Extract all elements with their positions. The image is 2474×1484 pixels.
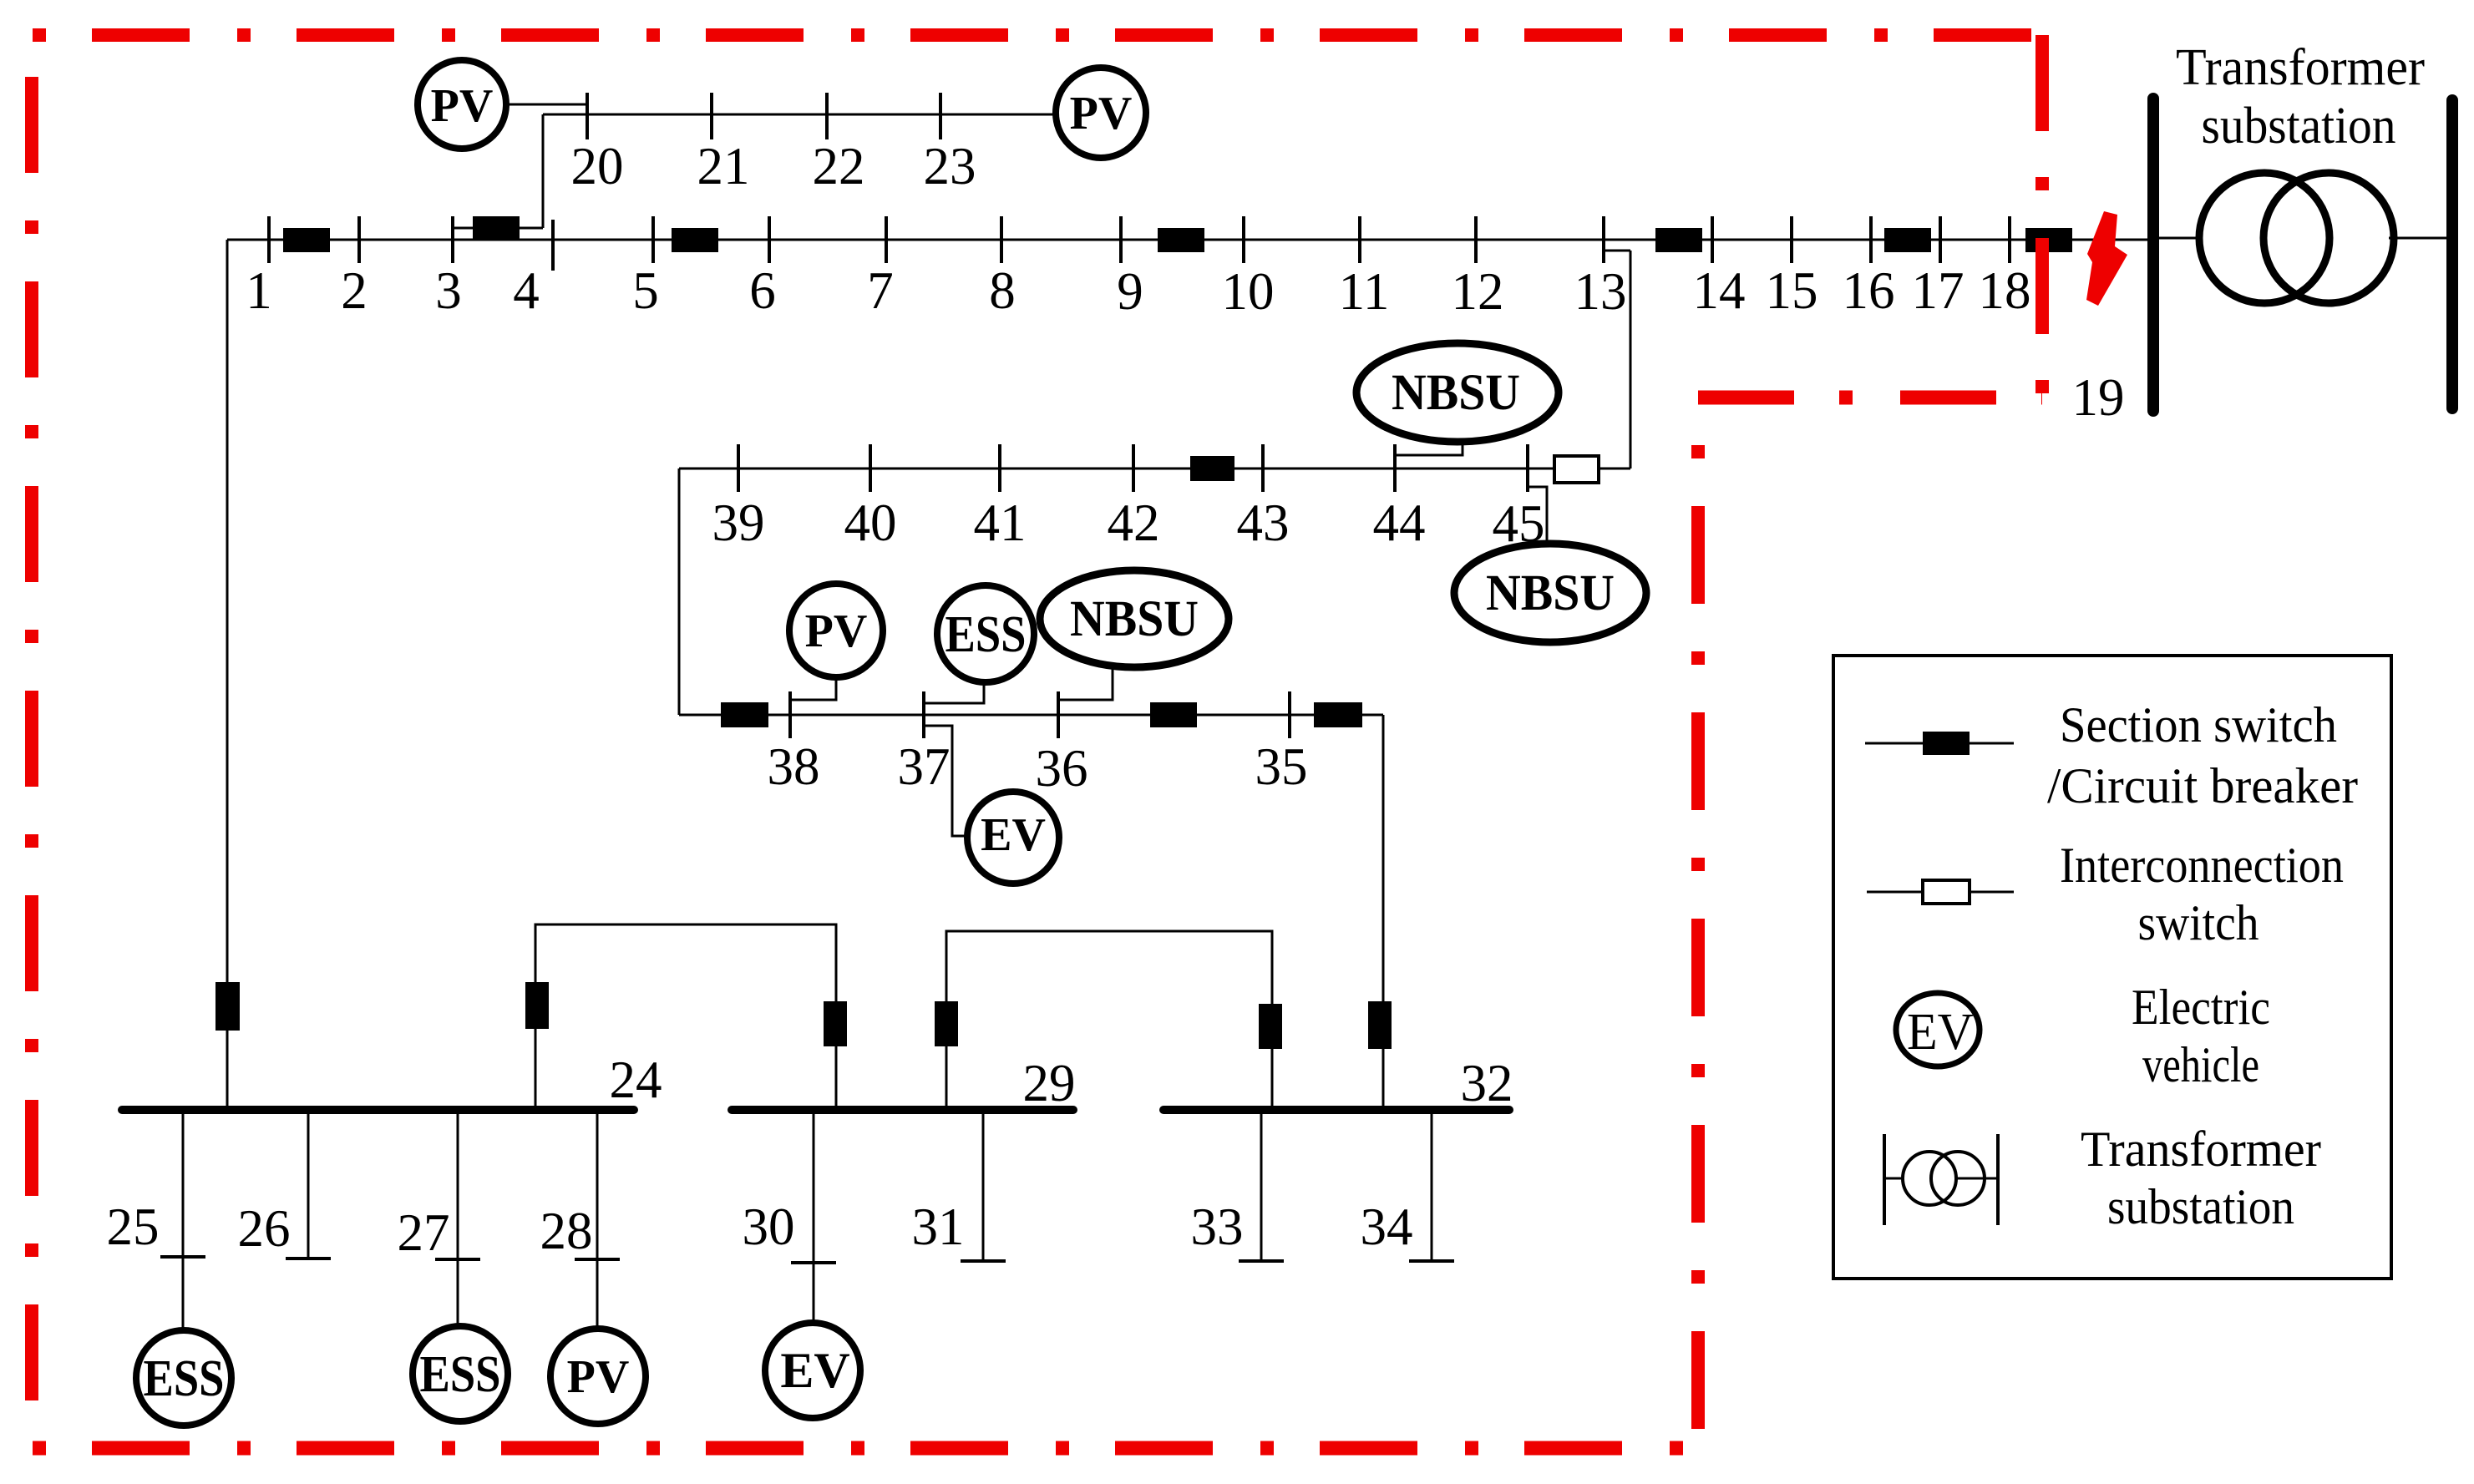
disconnect tick 25: [160, 1255, 205, 1259]
section switch on 32-side of link2: [1259, 1004, 1282, 1049]
ESS unit at node 37: [924, 585, 1034, 703]
section switch on riser bus1-24: [215, 982, 240, 1031]
legend: section switch sample: [1923, 732, 1970, 755]
substation right bus bar: [2446, 100, 2458, 408]
node 6: [768, 216, 771, 263]
svg-text:7: 7: [867, 261, 894, 320]
svg-text:EV: EV: [981, 809, 1046, 861]
red dash-dot microgrid boundary top edge: [33, 28, 2042, 42]
svg-text:4: 4: [513, 261, 540, 320]
EV unit at node 30: [765, 1323, 860, 1418]
legend box: [1833, 656, 2391, 1279]
section switch on node3 tap: [473, 216, 520, 241]
wire PV38 connector: [790, 677, 836, 700]
svg-text:8: 8: [989, 261, 1016, 320]
red boundary bottom edge: [33, 1441, 1698, 1456]
node 10: [1242, 216, 1245, 263]
svg-text:2: 2: [341, 261, 368, 320]
node 14: [1711, 216, 1714, 263]
wire tap vertical riser: [542, 114, 545, 228]
ticks: feeder 20-23 nodes: [587, 93, 940, 139]
PV source at node 20: [418, 60, 506, 149]
svg-text:17: 17: [1912, 261, 1964, 320]
svg-text:ESS: ESS: [420, 1346, 501, 1403]
legend: transformer sample right bar: [1996, 1134, 2000, 1225]
svg-text:36: 36: [1036, 739, 1088, 798]
svg-text:5: 5: [632, 261, 659, 320]
substation bus bar 19 (left): [2147, 99, 2159, 411]
svg-text:44: 44: [1373, 494, 1426, 552]
load 33: [1239, 1110, 1284, 1261]
svg-text:Transformer: Transformer: [2081, 1122, 2321, 1177]
svg-text:13: 13: [1574, 262, 1627, 321]
bus bar 24: [122, 1106, 634, 1114]
svg-text:vehicle: vehicle: [2142, 1037, 2259, 1092]
transformer substation: [2153, 39, 2452, 411]
node 16: [1869, 216, 1873, 263]
svg-text:22: 22: [813, 137, 865, 195]
svg-text:PV: PV: [1070, 88, 1133, 139]
wire NBSU36 connector: [1058, 667, 1113, 700]
node 5: [651, 216, 655, 263]
branch wire from node 13 down to feeder 39-45: [679, 251, 1630, 715]
node 18: [2008, 216, 2011, 263]
legend: transformer sample left bar: [1883, 1134, 1886, 1225]
node 23: [939, 93, 942, 139]
red boundary upper right edge: [2035, 35, 2049, 398]
wire NBSU44 connector: [1395, 442, 1463, 455]
svg-text:24: 24: [610, 1051, 662, 1109]
node 36: [1057, 691, 1060, 738]
node 4: [551, 220, 555, 271]
svg-text:3: 3: [435, 261, 462, 320]
load 28: [550, 1110, 646, 1424]
svg-text:NBSU: NBSU: [1392, 365, 1520, 421]
wire load 25: [182, 1110, 185, 1331]
svg-text:28: 28: [540, 1202, 593, 1260]
load 26: [286, 1110, 331, 1259]
wire node13 stub: [1604, 250, 1630, 252]
section switch left of node 38: [721, 702, 768, 727]
bus bar 32: [1163, 1106, 1509, 1114]
svg-text:35: 35: [1255, 737, 1308, 796]
wire NBSU45 connector: [1528, 487, 1547, 544]
svg-text:20: 20: [571, 137, 624, 195]
svg-text:Interconnection: Interconnection: [2060, 838, 2344, 893]
node 11: [1358, 216, 1361, 263]
legend: transformer sample winding B: [1931, 1152, 1985, 1205]
load 27: [413, 1110, 508, 1421]
section switch between nodes 42-43: [1190, 456, 1234, 481]
section switch on 29-side of link: [824, 1001, 847, 1046]
svg-text:substation: substation: [2107, 1179, 2294, 1234]
section switch between nodes 16-17: [1884, 228, 1931, 252]
ticks: lateral nodes: [790, 691, 1290, 738]
svg-text:12: 12: [1452, 262, 1504, 321]
end bar 31: [961, 1259, 1006, 1263]
node 40: [869, 444, 872, 492]
end bar 26: [286, 1257, 331, 1260]
wire load 30: [813, 1110, 815, 1335]
ticks: feeder 39-45 nodes: [738, 444, 1528, 492]
legend: section switch sample wire: [1865, 742, 2014, 745]
svg-text:26: 26: [238, 1199, 291, 1258]
svg-text:25: 25: [107, 1198, 160, 1256]
load 30: [765, 1110, 860, 1418]
feeder 20-23 wire: [543, 114, 1055, 116]
svg-text:PV: PV: [567, 1351, 630, 1403]
wire bus1 corner down to bus bar 24: [226, 240, 229, 1110]
svg-text:14: 14: [1693, 261, 1746, 320]
node 2: [357, 216, 361, 263]
svg-text:EV: EV: [780, 1343, 849, 1398]
svg-text:34: 34: [1361, 1198, 1413, 1256]
section switch on 29-side of link2: [935, 1001, 958, 1046]
section switch between nodes 5-6: [672, 228, 718, 252]
node 22: [825, 93, 829, 139]
wire load 28: [596, 1110, 599, 1330]
end bar 34: [1409, 1259, 1454, 1263]
bus bar 29: [732, 1106, 1073, 1114]
section switch between nodes 13-14: [1655, 228, 1702, 252]
node 12: [1474, 216, 1478, 263]
main feeder bus number labels: [246, 261, 2124, 427]
wire load 27: [457, 1110, 459, 1327]
svg-text:21: 21: [697, 137, 750, 195]
node 17: [1939, 216, 1942, 263]
svg-text:NBSU: NBSU: [1486, 565, 1615, 621]
svg-text:Transformer: Transformer: [2176, 39, 2425, 96]
ticks: main feeder nodes: [269, 216, 2010, 271]
svg-text:substation: substation: [2202, 98, 2396, 154]
svg-text:switch: switch: [2138, 895, 2259, 950]
wire load 33: [1260, 1110, 1263, 1261]
section switch between nodes 36-35: [1150, 702, 1197, 727]
node 7: [885, 216, 888, 263]
wire PV1 stub to node 20: [508, 104, 587, 106]
node 41: [998, 444, 1001, 492]
wire bar19 to transformer: [2159, 237, 2205, 240]
transformer T1 secondary winding: [2264, 173, 2394, 303]
wire load 26: [307, 1110, 310, 1259]
svg-text:27: 27: [398, 1203, 450, 1262]
node 37: [922, 691, 925, 738]
svg-text:19: 19: [2072, 368, 2125, 427]
main feeder wire (bus1 to substation): [227, 239, 2147, 241]
svg-text:ESS: ESS: [945, 606, 1027, 663]
svg-text:NBSU: NBSU: [1070, 591, 1199, 647]
wire transformer to right bar: [2389, 237, 2446, 240]
wire ESS37 connector: [924, 679, 984, 703]
wire load 31: [982, 1110, 985, 1261]
wire EV37 connector: [924, 726, 968, 836]
load 31: [961, 1110, 1006, 1261]
section switch between nodes 9-10: [1158, 228, 1204, 252]
lateral feeder 35-38: [679, 715, 1383, 1110]
end bar 33: [1239, 1259, 1284, 1263]
red boundary step edge: [1698, 391, 2042, 405]
node 43: [1261, 444, 1265, 492]
transformer T1 primary winding: [2199, 173, 2330, 303]
svg-text:33: 33: [1191, 1198, 1244, 1256]
section switch on riser lateral35-32: [1368, 1001, 1392, 1049]
svg-text:31: 31: [912, 1198, 965, 1256]
NBSU unit at node 45: [1454, 487, 1646, 642]
svg-text:16: 16: [1843, 261, 1895, 320]
circuit breaker right of node 18: [2025, 228, 2072, 252]
svg-text:1: 1: [246, 261, 272, 320]
node 9: [1119, 216, 1123, 263]
node 45: [1526, 444, 1529, 492]
node 3: [451, 216, 454, 263]
PV source at node 28: [550, 1329, 646, 1424]
EV unit at node 37: [924, 726, 1059, 884]
node 35: [1288, 691, 1291, 738]
svg-text:37: 37: [898, 737, 951, 796]
svg-text:/Circuit breaker: /Circuit breaker: [2047, 758, 2358, 813]
svg-text:18: 18: [1979, 261, 2031, 320]
red boundary left edge: [25, 77, 38, 1448]
svg-text:Electric: Electric: [2132, 980, 2270, 1035]
legend: transformer sample wire: [1884, 1178, 1998, 1180]
svg-text:32: 32: [1461, 1054, 1513, 1112]
wire riser 13-45: [1630, 251, 1632, 468]
disconnect tick 27: [435, 1258, 480, 1261]
ESS unit at node 25: [136, 1330, 231, 1426]
svg-text:Section switch: Section switch: [2060, 697, 2337, 752]
load 25: [136, 1110, 231, 1426]
svg-text:43: 43: [1237, 494, 1290, 552]
section switch between nodes 1-2: [283, 228, 330, 252]
node 44: [1393, 444, 1397, 492]
PV source at node 38: [789, 584, 883, 700]
svg-text:42: 42: [1108, 494, 1160, 552]
legend: transformer sample winding A: [1903, 1152, 1956, 1205]
svg-text:29: 29: [1023, 1054, 1076, 1112]
disconnect tick 28: [575, 1258, 620, 1261]
node 20: [586, 93, 589, 139]
node 21: [710, 93, 713, 139]
svg-text:6: 6: [749, 261, 776, 320]
section switch right of node 35: [1314, 702, 1362, 727]
load 34: [1409, 1110, 1454, 1261]
svg-text:PV: PV: [431, 80, 494, 132]
link wire bus29 to bus32: [946, 931, 1272, 1110]
node 42: [1132, 444, 1135, 492]
wire 39-feeder left drop: [678, 468, 681, 715]
svg-text:10: 10: [1222, 262, 1275, 321]
node 1: [267, 216, 271, 263]
NBSU unit at node 36: [1040, 570, 1229, 700]
svg-text:30: 30: [743, 1198, 795, 1256]
svg-text:23: 23: [924, 137, 976, 195]
legend: EV sample: [1896, 993, 1980, 1066]
link wire bus24 to bus29: [535, 924, 836, 1110]
svg-text:41: 41: [974, 494, 1027, 552]
red boundary inner right edge: [1691, 445, 1705, 1448]
node 13: [1602, 216, 1605, 263]
node 15: [1790, 216, 1793, 263]
ESS unit at node 27: [413, 1326, 508, 1421]
wire lateral to bus32 drop: [1382, 715, 1385, 1110]
PV source at node 23: [1056, 68, 1146, 158]
legend: interconnection switch sample: [1923, 880, 1970, 904]
wire load 34: [1431, 1110, 1433, 1261]
svg-text:ESS: ESS: [144, 1350, 225, 1407]
legend: interconnection switch sample wire: [1867, 891, 2014, 894]
section switch on 24-side of link: [525, 982, 549, 1029]
svg-text:38: 38: [768, 737, 820, 796]
tap wire from node 3 up to feeder 20-23: [453, 104, 1055, 228]
feeder 35-38 wire: [679, 714, 1383, 717]
wire node3 tap horizontal: [453, 227, 543, 230]
node 8: [1000, 216, 1003, 263]
svg-text:39: 39: [712, 494, 765, 552]
red fault lightning bolt at line 18-19: [2086, 211, 2127, 306]
NBSU unit at node 44: [1356, 343, 1559, 455]
svg-text:40: 40: [844, 494, 897, 552]
node 38: [788, 691, 792, 738]
svg-text:EV: EV: [1907, 1004, 1974, 1061]
node 39: [737, 444, 740, 492]
disconnect tick 30: [791, 1261, 836, 1264]
feeder 39-45 wire: [679, 468, 1630, 470]
svg-text:9: 9: [1117, 262, 1143, 321]
svg-text:11: 11: [1339, 262, 1390, 321]
svg-text:PV: PV: [805, 605, 868, 657]
interconnection switch at node 45: [1554, 456, 1599, 483]
svg-text:15: 15: [1766, 261, 1818, 320]
